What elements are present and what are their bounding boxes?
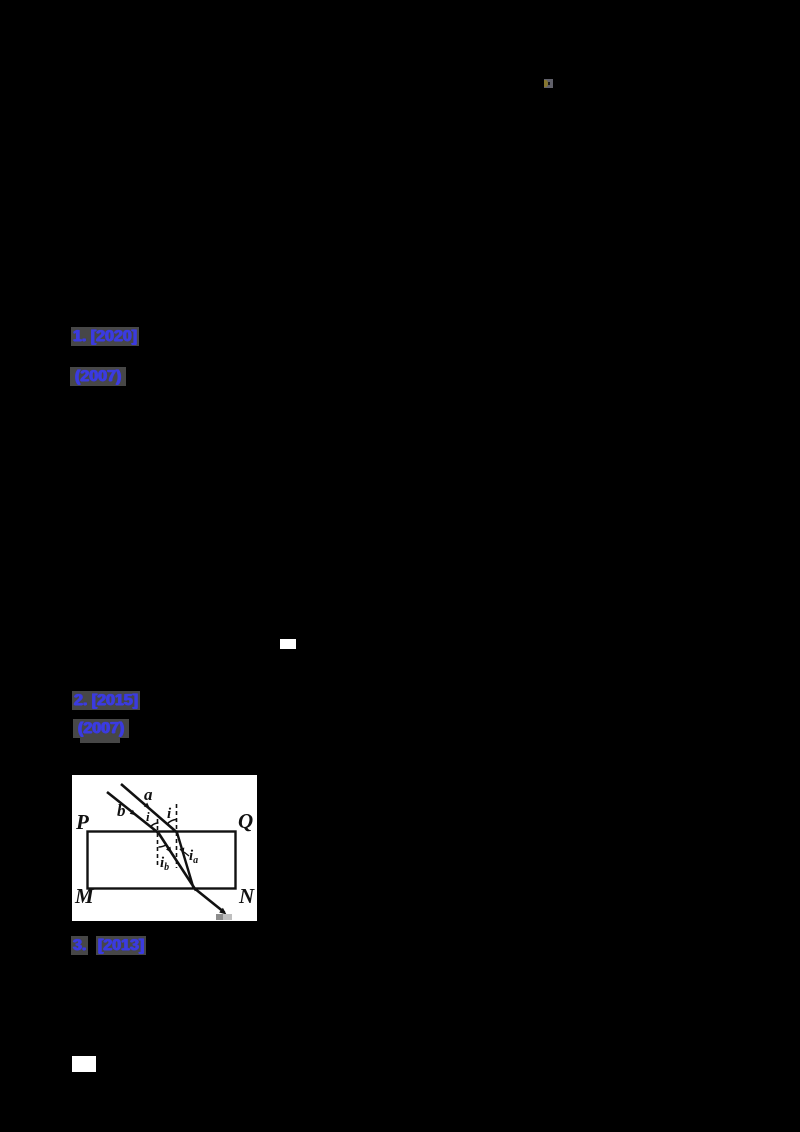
- svg-text:M: M: [74, 884, 95, 908]
- svg-text:N: N: [238, 884, 255, 908]
- svg-text:P: P: [75, 810, 89, 834]
- svg-text:a: a: [144, 785, 153, 804]
- svg-text:i: i: [167, 806, 172, 822]
- svg-text:ib: ib: [160, 855, 169, 873]
- svg-text:b: b: [117, 801, 126, 820]
- svg-text:i: i: [146, 809, 150, 824]
- svg-text:Q: Q: [238, 809, 253, 833]
- svg-text:ia: ia: [189, 848, 198, 866]
